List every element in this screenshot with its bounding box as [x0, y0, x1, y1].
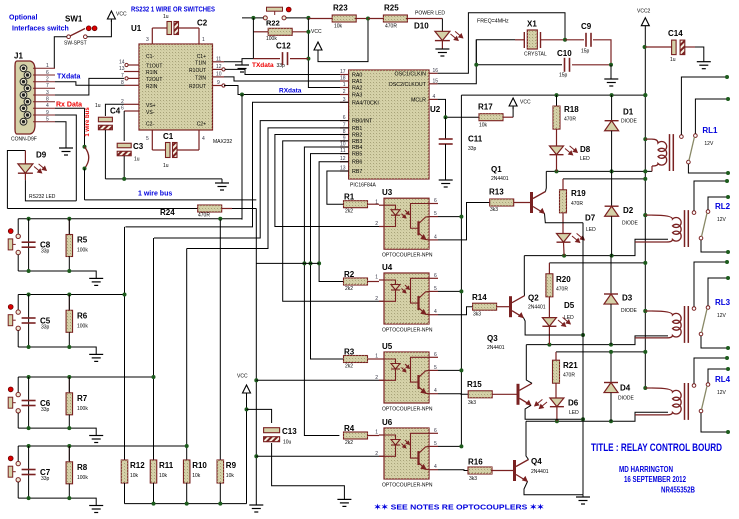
wire bus tie line: [256, 262, 319, 264]
wire U4 pin4 to R14: [438, 307, 473, 315]
relay RL3 coil: [643, 309, 647, 313]
wire Q1 emitter to bus: [545, 214, 584, 223]
svg-text:6: 6: [434, 428, 437, 434]
svg-text:RXdata: RXdata: [279, 88, 302, 95]
svg-text:D10: D10: [414, 22, 429, 31]
wire VCC rail bottom: [125, 503, 247, 505]
diode D3: [610, 256, 612, 294]
svg-text:12V: 12V: [704, 141, 714, 147]
pushbutton R22 block: [263, 16, 267, 20]
ground at D10: [435, 49, 449, 56]
svg-text:3: 3: [146, 37, 149, 43]
pin 9 RB3: [340, 140, 349, 142]
svg-text:DIODE: DIODE: [622, 221, 639, 227]
wire bottom rail C5: [18, 347, 96, 354]
wire right column of R22: [308, 18, 348, 88]
wire RL2 NC contact: [708, 197, 728, 210]
wire R24 to ground bus: [232, 208, 256, 210]
svg-text:R24: R24: [160, 208, 175, 217]
wire U1 T2OUT to J1 pin3: [55, 78, 124, 95]
svg-text:2: 2: [375, 451, 378, 457]
svg-text:10k: 10k: [159, 473, 168, 479]
ground at Q4 emitter bus: [582, 495, 584, 497]
svg-text:R11: R11: [159, 461, 174, 470]
pushbutton at C5: [17, 295, 19, 310]
pin 8 RB2: [340, 134, 349, 136]
svg-text:D9: D9: [36, 151, 47, 160]
svg-text:12V: 12V: [717, 217, 727, 223]
wire J1 pin5 to ground: [55, 122, 66, 148]
svg-text:X1: X1: [527, 20, 537, 29]
resistor R8: [68, 446, 70, 462]
svg-text:1: 1: [375, 430, 378, 436]
svg-text:3k3: 3k3: [468, 400, 476, 406]
svg-text:PIC16F84A: PIC16F84A: [350, 183, 377, 189]
svg-text:R19: R19: [571, 189, 586, 198]
wire drive node A3: [526, 336, 668, 345]
svg-text:4: 4: [434, 234, 437, 240]
svg-text:11: 11: [216, 56, 221, 62]
svg-text:U3: U3: [382, 188, 393, 197]
svg-text:4: 4: [434, 309, 437, 315]
wire button row: [242, 17, 263, 19]
svg-text:VCC2: VCC2: [637, 9, 651, 15]
ground main bus: [249, 505, 263, 512]
svg-text:5: 5: [146, 136, 149, 142]
pin 1 RA2: [340, 87, 349, 89]
wire bus RB5: [311, 154, 349, 359]
svg-text:Rx Data: Rx Data: [56, 102, 82, 109]
ic U2 PIC16F84A: [349, 70, 429, 179]
svg-text:✶✶ SEE NOTES RE OPTOCOUPLERS ✶: ✶✶ SEE NOTES RE OPTOCOUPLERS ✶✶: [374, 503, 545, 512]
svg-text:5: 5: [434, 286, 437, 292]
wire bus RB1: [187, 128, 349, 249]
wire RL2 NO contact: [694, 181, 727, 211]
svg-text:9: 9: [46, 110, 49, 116]
ground at C8: [89, 278, 103, 285]
svg-text:C4: C4: [110, 107, 121, 116]
svg-text:D8: D8: [580, 145, 591, 154]
svg-text:U2: U2: [430, 105, 441, 114]
svg-text:C14: C14: [668, 29, 683, 38]
wire U3 pin5 to supply: [438, 216, 461, 218]
svg-text:U4: U4: [382, 263, 393, 272]
svg-text:4: 4: [202, 136, 205, 142]
led D6: [550, 398, 564, 407]
svg-text:R9: R9: [226, 461, 237, 470]
svg-text:RL2: RL2: [715, 202, 731, 211]
wire bottom rail C7: [18, 498, 96, 505]
svg-text:2: 2: [343, 89, 346, 95]
pin 12 RB6: [340, 161, 349, 163]
svg-text:C2-: C2-: [146, 122, 154, 128]
wire Q3 emitter to bus: [525, 405, 583, 419]
svg-text:D1: D1: [623, 108, 634, 117]
svg-text:100k: 100k: [77, 475, 88, 481]
wire VCC2 rail: [461, 94, 645, 96]
svg-text:C11: C11: [468, 135, 483, 144]
pin 3 RA4/T0CKI: [340, 101, 349, 103]
svg-text:CRYSTAL: CRYSTAL: [524, 52, 547, 58]
pin 6 RB0/INT: [340, 120, 349, 122]
wire SW1 right to VCC: [87, 20, 111, 37]
svg-text:TXdata: TXdata: [252, 62, 274, 69]
resistor R21: [555, 352, 557, 360]
svg-text:RB4: RB4: [352, 145, 362, 151]
svg-text:5: 5: [434, 441, 437, 447]
wire SW1 left to J1 pin1: [54, 37, 67, 69]
pin 9 R2OUT: [213, 85, 223, 87]
wire Q3 collector: [526, 345, 532, 384]
svg-text:OSC2/CLKOUT: OSC2/CLKOUT: [389, 82, 427, 88]
wire Q4 emitter to ground: [524, 482, 583, 495]
svg-text:R18: R18: [564, 105, 579, 114]
svg-text:6: 6: [46, 70, 49, 76]
led D5: [542, 318, 556, 327]
svg-text:J1: J1: [14, 52, 23, 61]
svg-text:2: 2: [46, 77, 49, 83]
svg-text:C12: C12: [276, 42, 291, 51]
svg-text:R22: R22: [266, 19, 280, 28]
pin 2 RA3: [340, 94, 349, 96]
svg-text:VCC: VCC: [237, 374, 248, 380]
wire ground bus to U6 pin2: [256, 455, 384, 457]
svg-text:R7: R7: [77, 394, 88, 403]
wire T2IN to PIC RA1: [224, 77, 349, 81]
svg-text:C13: C13: [282, 427, 297, 436]
wire U4 pin5 to supply: [438, 290, 461, 292]
diode D1: [611, 95, 613, 121]
svg-text:C9: C9: [581, 22, 592, 31]
svg-text:1: 1: [375, 275, 378, 281]
wire J1 pin4 stub to hop: [55, 107, 85, 109]
svg-text:470R: 470R: [563, 373, 575, 379]
svg-text:Q1: Q1: [491, 165, 502, 174]
svg-text:12V: 12V: [717, 313, 727, 319]
svg-text:RB0/INT: RB0/INT: [352, 119, 373, 125]
svg-text:2N4401: 2N4401: [528, 305, 546, 311]
pin 12 R1OUT: [213, 68, 223, 70]
wire Q1 collector: [545, 171, 548, 191]
wire column R10: [186, 249, 188, 461]
svg-text:T2OUT: T2OUT: [146, 77, 162, 83]
svg-text:16: 16: [433, 68, 439, 74]
wire U3 pin4 to R13: [438, 203, 490, 240]
svg-text:R2IN: R2IN: [146, 84, 158, 90]
svg-text:2k2: 2k2: [345, 440, 353, 446]
svg-text:OPTOCOUPLER-NPN: OPTOCOUPLER-NPN: [382, 483, 433, 489]
svg-text:U5: U5: [382, 342, 393, 351]
svg-text:D2: D2: [623, 206, 634, 215]
svg-text:RB7: RB7: [352, 169, 362, 175]
svg-text:33p: 33p: [41, 325, 50, 331]
wire bottom rail C8: [18, 271, 96, 278]
svg-text:16 SEPTEMBER 2012: 16 SEPTEMBER 2012: [624, 475, 686, 484]
relay RL1 contacts: [680, 135, 684, 139]
wire drive node A2: [524, 239, 668, 255]
pin 4 MCLR: [429, 98, 438, 100]
wire ground bus: [255, 209, 257, 506]
svg-text:U6: U6: [382, 418, 393, 427]
wire Q4 collector: [526, 421, 529, 459]
svg-text:1u: 1u: [134, 157, 140, 163]
wire RL1 NO contact: [681, 77, 727, 135]
led D7: [557, 234, 571, 243]
wire VS caps to ground: [105, 178, 222, 180]
svg-text:R15: R15: [467, 380, 482, 389]
svg-text:POWER LED: POWER LED: [415, 11, 445, 17]
svg-text:RB2: RB2: [352, 133, 362, 139]
svg-text:Q3: Q3: [487, 334, 498, 343]
svg-text:1: 1: [375, 200, 378, 206]
wire D9 loop left: [7, 151, 25, 209]
wire drive node A4: [526, 412, 668, 421]
svg-text:1: 1: [375, 354, 378, 360]
wire RL4 common: [701, 413, 728, 432]
svg-text:15p: 15p: [581, 49, 590, 55]
svg-text:MAX232: MAX232: [213, 139, 232, 145]
resistor R12: [121, 460, 128, 483]
svg-text:RA2: RA2: [352, 86, 362, 92]
svg-text:470R: 470R: [556, 287, 568, 293]
svg-text:3k3: 3k3: [469, 476, 477, 482]
svg-text:T1OUT: T1OUT: [146, 64, 162, 70]
pin 7 RB1: [340, 127, 349, 129]
wire D9 cathode to loop bottom: [25, 180, 76, 201]
svg-text:NR455352B: NR455352B: [661, 486, 695, 495]
svg-text:R12: R12: [130, 461, 145, 470]
svg-text:17: 17: [340, 69, 346, 75]
svg-text:2: 2: [375, 221, 378, 227]
svg-text:C1+: C1+: [197, 54, 206, 60]
svg-text:VS+: VS+: [146, 103, 156, 109]
svg-text:MCLR: MCLR: [411, 97, 426, 103]
svg-text:OPTOCOUPLER-NPN: OPTOCOUPLER-NPN: [382, 253, 433, 259]
svg-text:OSC1/CLKIN: OSC1/CLKIN: [395, 71, 427, 77]
wire RL1 NC contact: [695, 99, 728, 134]
svg-text:T2IN: T2IN: [195, 76, 206, 82]
svg-text:1: 1: [202, 37, 205, 43]
svg-text:13: 13: [119, 66, 125, 72]
capacitor C3: [123, 111, 125, 141]
svg-text:10k: 10k: [130, 473, 139, 479]
svg-text:8: 8: [46, 97, 49, 103]
svg-text:R5: R5: [77, 236, 88, 245]
svg-text:Q2: Q2: [528, 294, 539, 303]
wire C12 left to T1IN ground node: [242, 59, 253, 62]
svg-text:LED: LED: [580, 156, 590, 162]
wire C14 to ground: [695, 47, 704, 62]
wire MCLR node: [438, 99, 479, 117]
svg-text:R2OUT: R2OUT: [189, 84, 206, 90]
svg-text:33p: 33p: [41, 476, 50, 482]
svg-text:FREQ=4MHz: FREQ=4MHz: [477, 19, 509, 25]
relay RL3 contacts: [692, 307, 696, 311]
svg-text:470R: 470R: [385, 24, 397, 30]
wire OSC1 to crystal top: [438, 13, 565, 74]
wire RL2 common: [701, 240, 728, 252]
svg-text:SW1: SW1: [65, 15, 83, 24]
wire indicator feed B1: [563, 178, 645, 180]
pin 14 T1OUT: [128, 64, 139, 66]
svg-text:R13: R13: [489, 188, 504, 197]
svg-text:7: 7: [46, 83, 49, 89]
svg-text:100k: 100k: [77, 248, 88, 254]
svg-text:2k2: 2k2: [345, 209, 353, 215]
wire top rail C5: [18, 294, 125, 296]
pin 8 R2IN: [125, 84, 140, 86]
svg-text:Optional: Optional: [9, 15, 37, 22]
svg-text:D5: D5: [564, 301, 575, 310]
ground at C11: [439, 180, 453, 187]
svg-text:3: 3: [46, 90, 49, 96]
relay RL2 contacts: [692, 211, 696, 215]
svg-text:33p: 33p: [468, 146, 477, 152]
svg-text:3k3: 3k3: [490, 207, 498, 213]
pin 10 RB4: [340, 146, 349, 148]
svg-text:RS232 LED: RS232 LED: [29, 194, 56, 200]
resistor R10: [183, 460, 190, 483]
svg-text:R23: R23: [333, 4, 348, 13]
wire column R12: [124, 227, 126, 460]
wire bus RB6: [319, 162, 349, 282]
svg-text:2N4401: 2N4401: [487, 345, 505, 351]
svg-text:15p: 15p: [559, 73, 568, 79]
svg-text:OPTOCOUPLER-NPN: OPTOCOUPLER-NPN: [382, 407, 433, 413]
resistor R11: [150, 460, 157, 483]
svg-text:4: 4: [46, 103, 49, 109]
svg-text:RA4/T0CKI: RA4/T0CKI: [352, 100, 379, 106]
wire column R9: [219, 220, 221, 461]
pin 5 C2- stub: [151, 130, 153, 150]
svg-text:VS-: VS-: [146, 110, 155, 116]
svg-text:2k2: 2k2: [345, 286, 353, 292]
svg-text:2k2: 2k2: [345, 364, 353, 370]
ground at C3 C4: [215, 183, 229, 190]
svg-text:OPTOCOUPLER-NPN: OPTOCOUPLER-NPN: [382, 328, 433, 334]
svg-text:10k: 10k: [226, 473, 235, 479]
wire bus RB0: [154, 121, 349, 238]
pin 2 VS+: [124, 103, 139, 105]
svg-text:470R: 470R: [571, 201, 583, 207]
svg-text:12V: 12V: [717, 390, 727, 396]
relay RL4 coil: [643, 386, 647, 390]
pin 10 T2IN: [213, 76, 225, 78]
svg-text:RB5: RB5: [352, 152, 362, 158]
wire VCC2 down: [644, 29, 646, 389]
wire ground bus to U5 pin2: [256, 379, 384, 381]
svg-text:1u: 1u: [95, 103, 101, 109]
svg-text:CONN-D9F: CONN-D9F: [11, 137, 37, 143]
pin 4 C2+ stub: [198, 130, 200, 150]
svg-text:LED: LED: [586, 227, 596, 233]
svg-text:LED: LED: [569, 410, 579, 416]
svg-text:R16: R16: [468, 458, 483, 467]
capacitor C6: [28, 377, 30, 428]
svg-text:VCC: VCC: [311, 29, 322, 35]
svg-text:15: 15: [433, 78, 439, 84]
capacitor C8: [28, 219, 30, 271]
svg-text:6: 6: [121, 106, 124, 112]
svg-text:Q4: Q4: [531, 457, 542, 466]
svg-text:14: 14: [119, 60, 125, 66]
svg-text:R6: R6: [77, 312, 88, 321]
svg-text:100k: 100k: [77, 324, 88, 330]
svg-text:6: 6: [434, 198, 437, 204]
resistor R18: [556, 95, 558, 106]
svg-text:2: 2: [375, 296, 378, 302]
relay RL1 coil: [643, 137, 647, 141]
pin 13 RB7: [340, 170, 349, 172]
ground at C5: [89, 354, 103, 361]
ground at J1: [59, 148, 73, 155]
pin 11 T1IN: [213, 61, 225, 63]
svg-text:9: 9: [217, 80, 220, 86]
svg-text:3k3: 3k3: [473, 312, 481, 318]
svg-text:RL3: RL3: [715, 298, 731, 307]
wire top rail C8: [18, 218, 242, 220]
svg-text:DIODE: DIODE: [618, 396, 635, 402]
svg-text:4: 4: [433, 94, 436, 100]
svg-text:6: 6: [434, 352, 437, 358]
svg-text:18: 18: [340, 76, 346, 82]
led D8: [550, 146, 564, 155]
pushbutton at C8: [17, 219, 19, 234]
svg-text:1u: 1u: [670, 57, 676, 63]
svg-text:5: 5: [46, 117, 49, 123]
svg-text:10u: 10u: [283, 440, 292, 446]
svg-text:VCC: VCC: [116, 12, 127, 18]
pin 1 C1+ stub: [198, 28, 200, 44]
svg-text:DIODE: DIODE: [621, 308, 638, 314]
svg-text:2N4401: 2N4401: [531, 469, 549, 475]
svg-text:C1-: C1-: [146, 54, 154, 60]
svg-text:RA3: RA3: [352, 93, 362, 99]
svg-text:33p: 33p: [277, 63, 286, 69]
svg-text:VCC: VCC: [520, 100, 531, 106]
svg-text:2: 2: [375, 375, 378, 381]
svg-text:RL1: RL1: [702, 126, 718, 135]
svg-text:5: 5: [434, 211, 437, 217]
wire Q2 emitter to bus: [524, 318, 584, 335]
wire R24 row: [7, 208, 198, 210]
svg-text:10k: 10k: [479, 123, 488, 129]
wire bus RA4: [125, 102, 348, 227]
pin 11 RB5: [340, 153, 349, 155]
pin 15 OSC2/CLKOUT: [429, 83, 438, 85]
pin 13 R1IN: [124, 71, 139, 73]
svg-text:R17: R17: [478, 103, 493, 112]
svg-text:1u: 1u: [163, 14, 169, 20]
diode D4: [610, 352, 612, 383]
wire OSC2 to crystal left: [438, 40, 515, 84]
relay RL2 coil: [643, 213, 647, 217]
wire bus RB2 to U3 pin2: [275, 135, 384, 227]
svg-text:RB3: RB3: [352, 139, 362, 145]
svg-text:5: 5: [434, 365, 437, 371]
svg-text:2N4401: 2N4401: [491, 176, 509, 182]
svg-text:RA0: RA0: [352, 73, 362, 79]
wire indicator feed B2: [549, 262, 645, 264]
svg-text:470R: 470R: [198, 213, 210, 219]
wire bus RB4: [304, 147, 348, 436]
svg-text:4: 4: [434, 388, 437, 394]
wire top rail C7: [18, 445, 187, 447]
svg-text:R10: R10: [192, 461, 207, 470]
svg-text:R25: R25: [384, 4, 399, 13]
resistor R9: [217, 460, 224, 483]
wire U6 pin4 to R16: [438, 469, 469, 472]
